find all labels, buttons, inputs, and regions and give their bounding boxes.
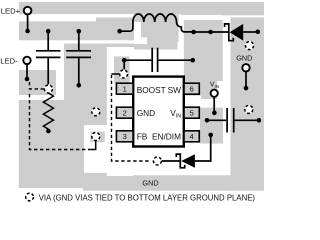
node pin5 wire [205,118,210,123]
node R1 bottom [46,129,51,134]
GND terminal [242,64,249,71]
capacitor C1 [36,31,61,85]
node LED- [25,77,30,82]
inductor L1 [120,14,194,32]
copper pour: via V5 column (BOOST) [114,56,130,83]
wire LED+ [27,14,29,30]
dashed trace EN/DIM [112,75,151,161]
node GND [244,86,249,91]
wire SW node to D1 [194,31,228,33]
svg-text:GND: GND [142,178,158,187]
wire via V2 stub [90,141,96,150]
copper pour: mid GND pour [64,44,107,126]
pin 2 box [116,107,133,118]
copper pour: band C strip [107,44,134,48]
svg-text:GND: GND [137,108,155,118]
wire GND terminal [245,72,247,89]
svg-text:3: 3 [123,132,127,141]
wire pin5 to C3 [206,119,226,121]
pin 3 box [116,131,133,142]
svg-text:LED+: LED+ [1,6,21,15]
copper pour: VIN lower (pin5) [200,108,223,144]
dashed trace LED- to via V1 [30,82,44,89]
copper pour: top band [19,2,264,15]
node C3 right [257,118,262,123]
wire pin4 to D2 [195,135,211,161]
pin 5 box [184,107,199,118]
copper pour: SW island + VIN upper [184,20,223,96]
svg-text:1: 1 [123,85,127,94]
via V6 (EN/DIM) [153,156,162,165]
node L1 right [191,30,196,35]
copper pour: right GND pour [231,17,265,191]
svg-text:BOOST: BOOST [137,85,166,95]
wire LED- [26,64,28,79]
via V4 (below D1) [245,41,254,50]
copper pour: via2 strip (FB) [91,132,105,143]
wire via V6 to D2 [162,160,181,162]
wire via V5 hook [112,73,120,75]
svg-text:2: 2 [123,109,127,118]
via V3 (GND) [91,107,100,116]
via V5 (BOOST) [119,69,128,78]
diode D2 cathode bar [176,154,184,168]
node SW [208,30,213,35]
via V2 (FB) [91,132,100,141]
capacitor C4 (boost) [124,48,193,72]
svg-text:5: 5 [189,109,193,118]
white channels [0,0,268,204]
legend via symbol [25,193,34,202]
copper pour: VIN mid [201,81,217,99]
copper pour: bottom GND band [83,173,264,191]
svg-text:GND: GND [236,54,252,63]
node L1 left [117,29,122,34]
pin 6 box [184,83,199,94]
svg-text:EN/DIM: EN/DIM [152,132,181,142]
resistor R1 [43,93,53,129]
node D1 anode [255,30,260,35]
LED+ terminal [24,7,32,15]
svg-text:LED-: LED- [0,56,18,65]
pin 4 box [184,131,199,142]
svg-text:4: 4 [189,132,193,141]
dashed trace LED- down to via V2 [30,94,91,150]
node VIN [212,111,217,116]
capacitor C3 (input) [227,108,259,133]
node pin4 [208,133,213,138]
svg-text:FB: FB [137,132,148,142]
copper pour: band B [19,17,134,40]
capacitor C2 [66,31,91,85]
svg-text:VIA (GND VIAS TIED TO BOTTOM L: VIA (GND VIAS TIED TO BOTTOM LAYER GROUN… [39,193,256,202]
via V7 (C3 GND) [244,105,253,114]
copper pour: inductor block [134,15,179,43]
node LED+ [25,29,30,34]
svg-text:SW: SW [168,85,182,95]
via V1 (C1/R1) [44,84,53,93]
IC U1 body [133,77,184,147]
copper pour: left bottom pour [17,100,84,188]
VIN terminal [211,90,218,97]
LED- terminal [23,57,30,64]
copper pour: LED-/R block [19,70,56,95]
svg-text:6: 6 [189,85,193,94]
diode D1 cathode bar [225,24,234,41]
wire C4 to via V5 [123,60,125,69]
wire VIN terminal [213,97,215,113]
diode D1 body [230,24,244,41]
diode D2 body [181,154,195,168]
wire D1 anode [243,31,258,33]
pin 1 box [116,83,133,94]
